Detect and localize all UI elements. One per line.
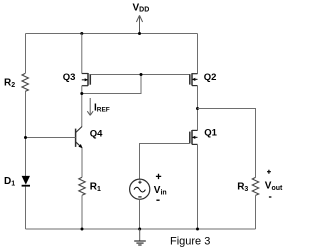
wire left rail middle (R2 to D1) [25,91,27,176]
node VDD rail junction [138,32,141,35]
wire Q4 base lead [26,137,76,139]
transistor Q2 (PMOS, gate on left) [190,72,217,86]
ground [134,229,146,245]
wire output node to R3 branch [198,109,256,178]
wire Q2 source from rail [197,34,199,74]
wire R1 to bottom rail [81,195,83,229]
wire Q1 gate to Vin [140,144,190,180]
resistor R2 [4,73,28,91]
transistor Q1 (NMOS, gate on left) [190,127,218,144]
wire left rail lower (D1 to bottom) [25,187,27,230]
wire Q3 drain down to Q4 collector [81,86,83,127]
wire diode-connection loop Q3 [82,75,141,94]
wire Q1 source to bottom rail [197,144,199,229]
diode D1 [4,176,30,188]
node Q3 rail junction [80,32,83,35]
node base junction on left rail [24,136,27,139]
resistor R3 [237,177,259,195]
node ground junction [138,228,141,231]
transistor Q4 (NPN BJT) [76,127,104,149]
svg-text:Q3: Q3 [63,72,76,83]
svg-text:Q4: Q4 [90,129,103,140]
current arrow IREF [87,98,110,115]
node output junction [196,107,199,110]
wire top rail [26,33,198,35]
node gate bus junction [140,73,143,76]
svg-text:Q2: Q2 [204,72,217,83]
wire gate bus Q3 to Q2 [90,74,190,76]
wire left rail upper (rail to R2) [25,34,27,74]
node drain loop junction [80,92,83,95]
node Q1 source bottom junction [196,228,199,231]
transistor Q3 (PMOS, gate on right) [63,72,91,86]
label Vout [265,170,283,197]
VDD supply arrow [133,3,150,34]
svg-text:Q1: Q1 [204,127,217,138]
wire Vin to bottom rail [139,199,141,229]
source Vin (sine source) [130,174,167,201]
wire Q2 drain to output node [197,86,199,131]
wire bottom rail [26,228,256,230]
wire Q4 emitter to R1 [81,148,83,178]
wire R3 to bottom rail [255,195,257,229]
svg-text:Figure 3: Figure 3 [170,236,210,248]
resistor R1 [79,177,101,195]
node R1 bottom junction [81,228,84,231]
wire Q3 source from rail [81,34,83,74]
